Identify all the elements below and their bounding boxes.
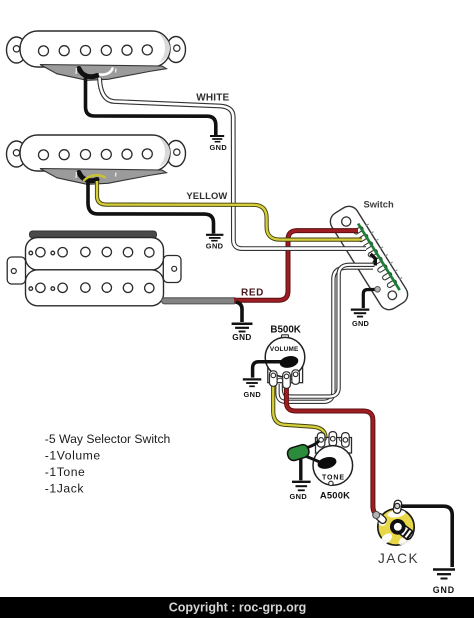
yellow wire: volume pot to tone pot	[273, 383, 326, 442]
black wire: capacitor to ground	[299, 457, 302, 480]
tone pot V2 casing	[316, 438, 352, 454]
P1 wire wrap	[79, 69, 97, 77]
switch contact strip (green)	[358, 224, 400, 291]
svg-text:-1Tone: -1Tone	[45, 465, 86, 479]
black wire: humbucker cable to ground	[236, 302, 242, 322]
svg-text:-5 Way Selector Switch: -5 Way Selector Switch	[45, 432, 171, 446]
ground symbol G1	[210, 136, 224, 142]
J1 barrel ring	[392, 521, 404, 533]
V1 lug 3	[292, 370, 300, 385]
switch body	[327, 201, 414, 313]
white wire: pickup P1 to switch	[100, 78, 367, 249]
svg-text:YELLOW: YELLOW	[186, 190, 227, 201]
svg-text:Switch: Switch	[364, 199, 394, 210]
P2 pole pieces	[39, 149, 153, 160]
white wire pair: switch to volume pot (inner)	[284, 265, 375, 397]
svg-text:GND: GND	[433, 585, 455, 595]
V2 lug 2	[329, 432, 337, 447]
ground symbol G5	[243, 379, 261, 386]
capacitor lead to lug	[306, 441, 319, 448]
svg-text:JACK: JACK	[378, 551, 419, 566]
jack J1 body	[378, 509, 414, 545]
switch wire crimp	[375, 287, 381, 293]
svg-text:-1Jack: -1Jack	[45, 482, 85, 496]
single-coil pickup P2 (middle)	[7, 135, 186, 171]
J1 red-wire crimp	[373, 512, 380, 519]
red wire: volume pot to jack	[286, 383, 375, 513]
switch mounting hole top	[340, 215, 353, 228]
volume pot V1 casing	[268, 364, 303, 383]
J1 left lug	[375, 512, 388, 524]
humbucker H1 top edge bar	[30, 231, 157, 238]
svg-text:GND: GND	[244, 390, 262, 399]
V1 wiper hole (black)	[279, 354, 300, 369]
V2 casing arches	[319, 438, 348, 443]
humbucker H1 mounting ears	[7, 256, 181, 285]
single-coil pickup P1 (neck)	[7, 31, 186, 67]
svg-text:WHITE: WHITE	[196, 93, 229, 104]
black wire: pickup P1 to ground	[86, 77, 216, 135]
V2 lug 3	[342, 433, 350, 448]
ground symbol G3	[232, 324, 253, 332]
J1 barrel sleeve	[395, 522, 415, 541]
V2 bottom hole	[329, 481, 333, 485]
V1 lug 2	[283, 372, 291, 389]
J1 sleeve thread bands	[403, 529, 413, 540]
V1 lug 1	[270, 371, 278, 387]
tone pot V2 body circle	[313, 446, 353, 486]
switch lugs	[353, 226, 397, 288]
humbucker H1 bobbins	[26, 238, 164, 271]
red wire: humbucker to switch	[234, 231, 358, 301]
svg-text:GND: GND	[206, 242, 224, 251]
svg-text:Copyright : roc-grp.org: Copyright : roc-grp.org	[169, 601, 307, 615]
P2 base plate	[40, 169, 167, 185]
volume pot V1 body circle	[265, 337, 305, 377]
svg-text:GND: GND	[290, 492, 308, 501]
svg-text:-1Volume: -1Volume	[45, 449, 101, 463]
svg-text:A500K: A500K	[320, 490, 350, 501]
svg-text:TONE: TONE	[322, 474, 345, 481]
copyright bar	[0, 597, 474, 618]
svg-text:GND: GND	[210, 143, 228, 152]
white wire pair: switch to volume pot (outer)	[278, 268, 374, 402]
ground symbol G2	[206, 235, 223, 241]
black wire: switch to ground	[363, 289, 377, 308]
P1 base plate	[40, 65, 167, 81]
J1 highlight swirls	[378, 509, 412, 547]
V2 lug 1	[317, 433, 325, 448]
ground symbol G7	[433, 570, 455, 579]
P2 wire wrap	[79, 173, 97, 181]
P1 pole pieces	[39, 45, 153, 56]
svg-text:GND: GND	[232, 333, 251, 342]
switch lug tick marks	[366, 224, 402, 279]
ground symbol G4	[351, 310, 370, 317]
svg-text:B500K: B500K	[270, 325, 301, 336]
switch jumper wire	[371, 254, 376, 266]
switch mounting hole bottom	[386, 289, 398, 301]
svg-text:GND: GND	[352, 319, 369, 328]
J1 top lug	[393, 500, 402, 514]
black wire: volume pot to ground	[253, 362, 284, 378]
volume pot V1 shaft notch	[282, 335, 289, 341]
svg-text:VOLUME: VOLUME	[270, 346, 299, 353]
svg-text:RED: RED	[241, 287, 264, 298]
V1 casing arches	[276, 378, 297, 383]
H1 pole pieces row 2	[29, 283, 154, 293]
H1 pole pieces row 1	[29, 247, 154, 257]
humbucker shielded cable	[165, 297, 235, 304]
capacitor lead to wiper	[307, 457, 324, 464]
capacitor C1	[286, 443, 310, 462]
ground symbol G6	[292, 482, 311, 491]
V2 wiper hole (black)	[316, 455, 337, 471]
black wire: pickup P2 to ground	[88, 182, 214, 234]
yellow wire: pickup P2 to switch	[97, 181, 362, 240]
black wire: jack to ground	[399, 506, 452, 567]
